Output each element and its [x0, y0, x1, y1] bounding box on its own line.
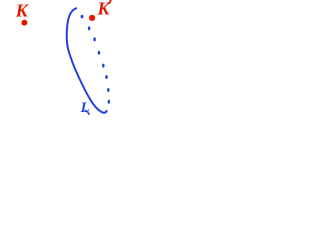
svg-text:K: K: [15, 0, 30, 20]
dot 3: [93, 37, 96, 41]
dot 8: [108, 100, 111, 104]
dot 5: [102, 64, 105, 68]
label L swash tail: [86, 110, 90, 114]
point K marker: [21, 20, 27, 26]
dot 7: [107, 88, 110, 92]
dot 2: [88, 26, 91, 30]
loop L dotted back arc: dot 1: [81, 15, 84, 19]
point K' marker: [89, 15, 95, 21]
loop L solid front arc: [67, 8, 107, 112]
dot 6: [105, 75, 108, 79]
dot 4: [98, 51, 101, 55]
prime mark of K': [109, 0, 111, 3]
